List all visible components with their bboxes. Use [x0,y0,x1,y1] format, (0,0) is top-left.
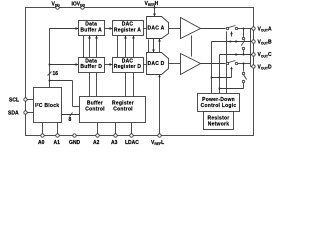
svg-text:A0: A0 [38,140,45,146]
svg-text:A3: A3 [111,140,118,146]
svg-text:VREFH: VREFH [145,1,159,7]
svg-text:DAC A: DAC A [148,25,165,31]
svg-text:16: 16 [53,71,59,77]
svg-text:SDA: SDA [8,110,19,116]
svg-text:DAC D: DAC D [148,61,165,67]
svg-text:A1: A1 [54,140,61,146]
svg-text:VOUTD: VOUTD [258,64,273,70]
svg-text:Register D: Register D [114,64,142,70]
svg-text:A2: A2 [93,140,100,146]
svg-text:Control: Control [85,106,105,112]
svg-text:Power-Down: Power-Down [202,97,235,103]
svg-text:I2C Block: I2C Block [35,103,59,110]
svg-text:LDAC: LDAC [125,140,139,146]
svg-text:VOUTA: VOUTA [258,27,273,33]
svg-text:Register A: Register A [114,27,141,33]
svg-text:IOVDD: IOVDD [72,1,86,7]
svg-text:VREFL: VREFL [151,140,164,146]
svg-text:Control Logic: Control Logic [201,103,237,109]
svg-text:VOUTC: VOUTC [258,52,273,58]
svg-text:Control: Control [113,106,133,112]
svg-text:VOUTB: VOUTB [258,39,273,45]
svg-text:GND: GND [69,140,81,146]
svg-text:Buffer A: Buffer A [80,27,102,33]
svg-text:Buffer D: Buffer D [80,64,102,70]
svg-text:Network: Network [208,121,229,127]
svg-text:8: 8 [69,117,72,123]
svg-text:SCL: SCL [9,97,19,103]
svg-text:VDD: VDD [52,1,61,7]
